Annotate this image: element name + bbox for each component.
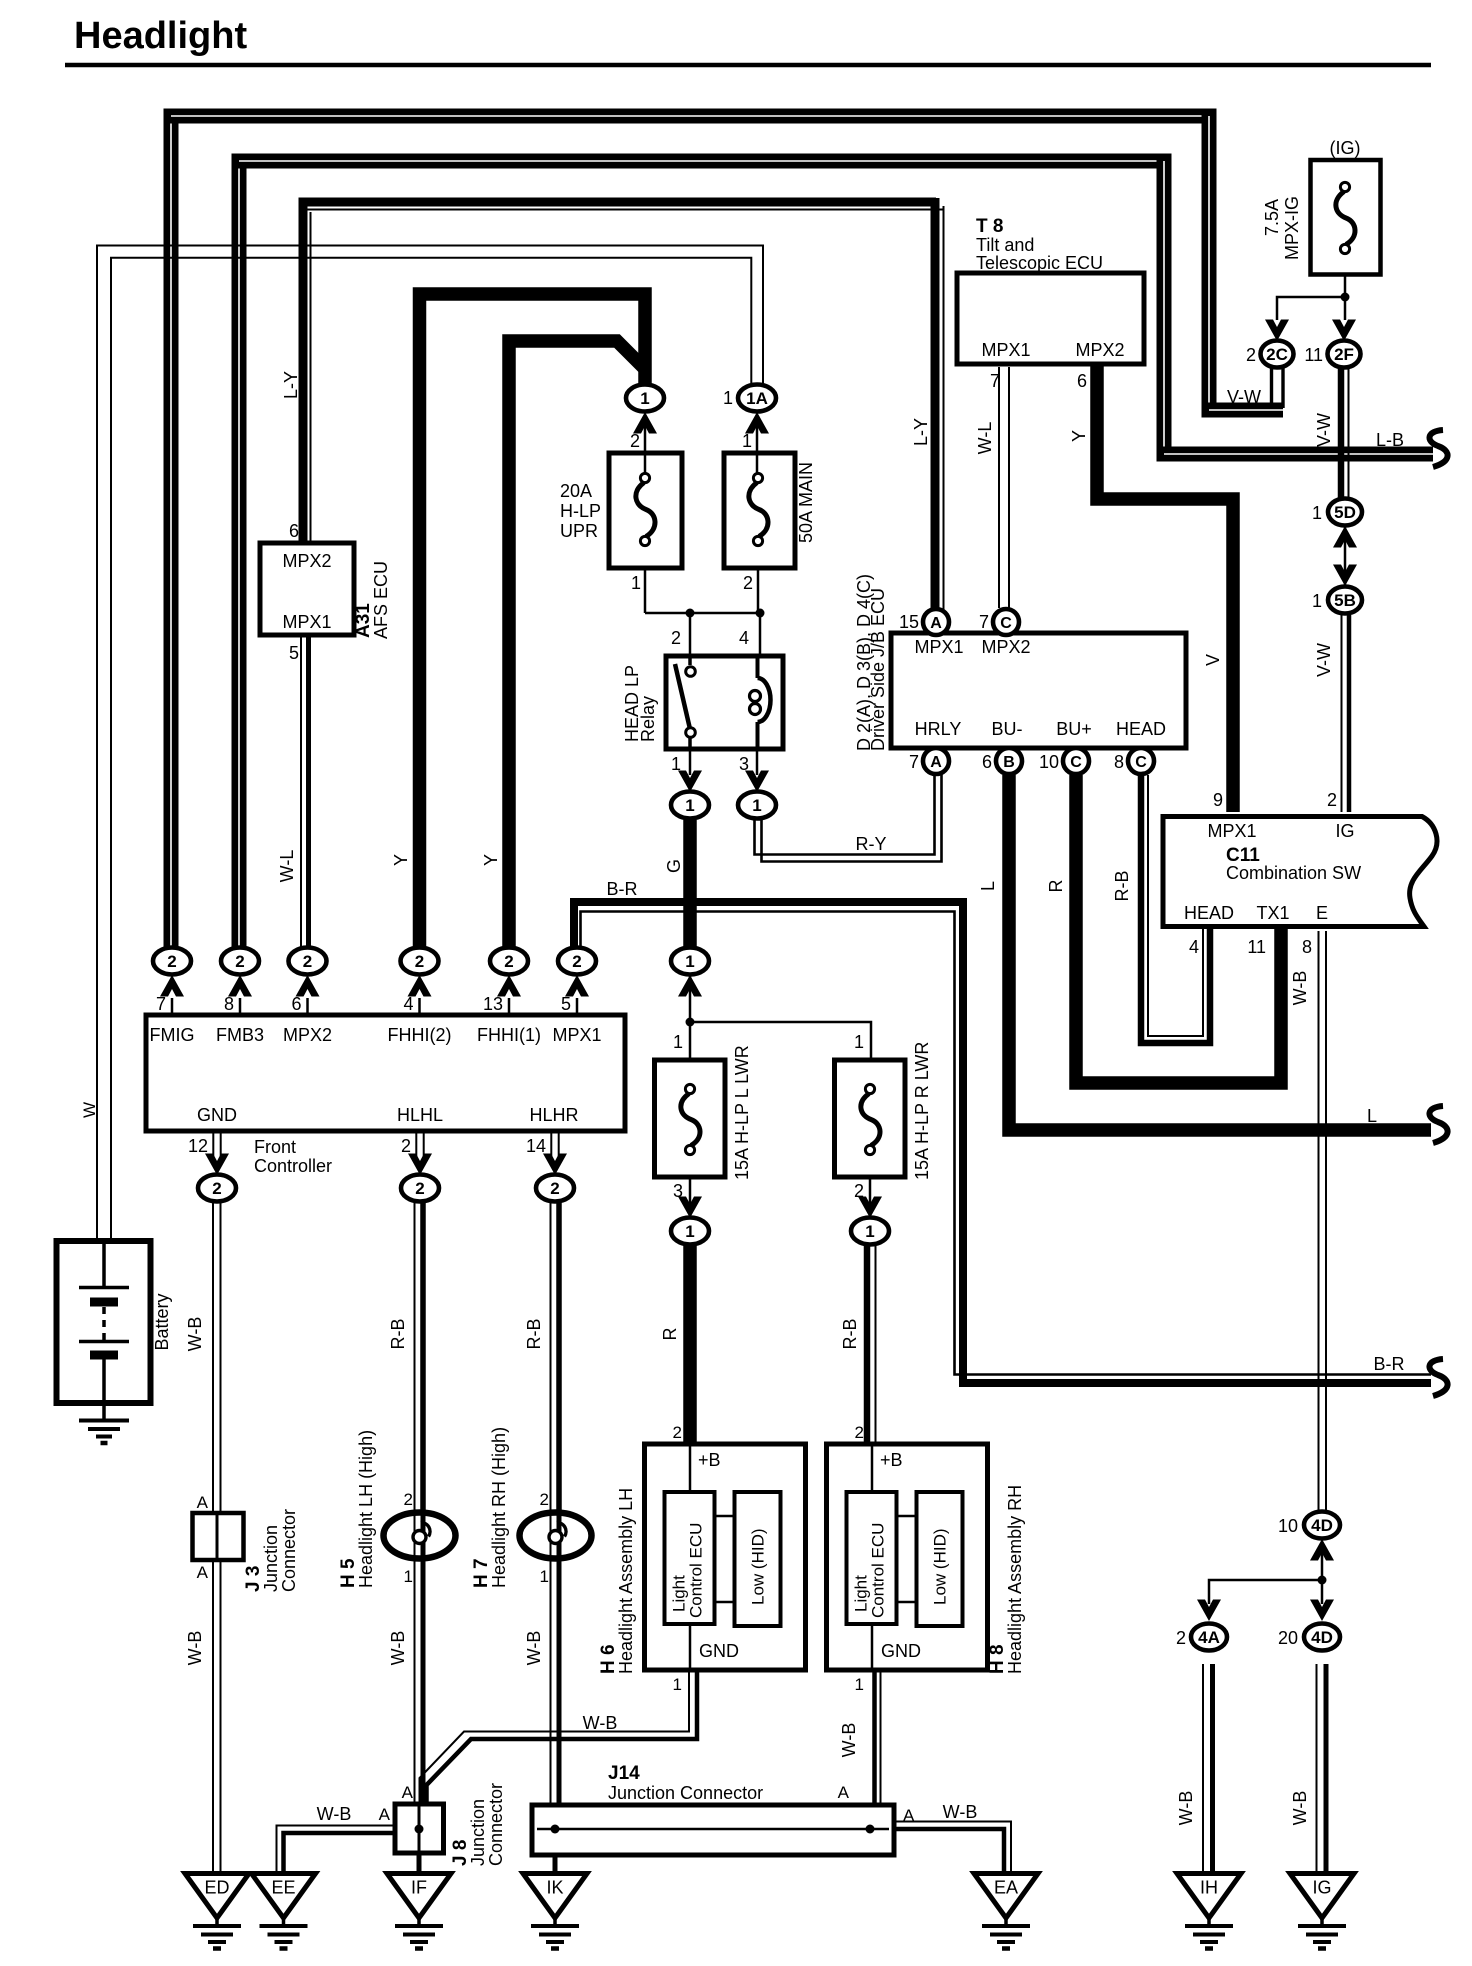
- svg-text:AFS ECU: AFS ECU: [371, 561, 391, 639]
- fuse 15A H-LP L LWR box: [655, 1060, 726, 1177]
- svg-text:(IG): (IG): [1330, 138, 1361, 158]
- wire W-B E line b: [1325, 931, 1327, 1510]
- wire W battery outer line: [97, 246, 763, 1244]
- wire R wire BU+ to C11 TX1: [1076, 775, 1281, 1083]
- svg-text:13: 13: [483, 994, 503, 1014]
- wire W-B IG thick: [1324, 1664, 1329, 1872]
- svg-text:Junction: Junction: [261, 1525, 281, 1592]
- connector oval 2F: [1328, 341, 1361, 368]
- svg-text:T 8: T 8: [976, 216, 1003, 237]
- wire FC FHHI(2) pin stub: [418, 998, 421, 1013]
- wire W-B IH thick: [1210, 1664, 1215, 1872]
- wire L-Y thin companion vertical: [310, 212, 312, 541]
- svg-text:2: 2: [235, 952, 244, 971]
- svg-text:Relay: Relay: [638, 696, 658, 742]
- ECU Front Controller box: [146, 1015, 625, 1131]
- J/B top pin circle A: [923, 609, 949, 635]
- svg-text:GND: GND: [881, 1641, 921, 1661]
- svg-text:IG: IG: [1335, 821, 1354, 841]
- svg-text:2: 2: [572, 952, 581, 971]
- svg-text:Y: Y: [1069, 430, 1089, 442]
- wire V-W stub under connector 2C: [1272, 367, 1284, 408]
- wire R-B thick to H8: [864, 1245, 871, 1446]
- wire R-B H7 thick: [556, 1202, 562, 1512]
- connector oval 2 (HLHR out): [536, 1175, 574, 1202]
- svg-text:7: 7: [156, 994, 166, 1014]
- svg-text:+B: +B: [880, 1450, 903, 1470]
- junction dot: [686, 609, 695, 618]
- svg-text:1: 1: [742, 431, 752, 451]
- svg-text:W-B: W-B: [185, 1631, 205, 1666]
- connector oval 1A: [738, 385, 776, 412]
- wire L-Y thick down to J/B MPX1: [931, 198, 940, 610]
- svg-text:TX1: TX1: [1256, 903, 1289, 923]
- svg-text:L: L: [1367, 1106, 1377, 1126]
- svg-text:Controller: Controller: [254, 1156, 332, 1176]
- J/B top pin circle C: [993, 609, 1019, 635]
- svg-text:6: 6: [982, 752, 992, 772]
- wire R wire to H6: [683, 1245, 697, 1446]
- svg-text:MPX2: MPX2: [981, 637, 1030, 657]
- svg-text:1: 1: [752, 796, 761, 815]
- svg-text:W-B: W-B: [1290, 971, 1310, 1006]
- wire W-B GND line b: [220, 1202, 222, 1872]
- svg-text:2: 2: [671, 628, 681, 648]
- off-page connector curl B-R: [1429, 1359, 1447, 1396]
- wire R-B H5 thick: [420, 1202, 426, 1512]
- J3 internal divider: [216, 1513, 219, 1560]
- wire junction horizontal: [645, 612, 760, 615]
- svg-text:MPX1: MPX1: [981, 340, 1030, 360]
- connector oval 2 (GND out): [198, 1175, 236, 1202]
- fuse 20A H-LP UPR box: [609, 453, 682, 568]
- fuse 15A H-LP R LWR box: [835, 1060, 906, 1177]
- arrow into 4D (20): [1310, 1600, 1334, 1622]
- wire FC GND down stub a: [212, 1133, 214, 1162]
- svg-text:4D: 4D: [1311, 1628, 1333, 1647]
- svg-text:1A: 1A: [746, 389, 768, 408]
- wire G wire: [683, 820, 697, 948]
- wire 4D lower stub: [1321, 1553, 1324, 1580]
- svg-text:IK: IK: [546, 1878, 563, 1898]
- wire W-B GND line a: [212, 1202, 214, 1872]
- wire FC HLHR down stub a: [550, 1133, 552, 1162]
- svg-text:HEAD: HEAD: [1184, 903, 1234, 923]
- svg-text:Tilt and: Tilt and: [976, 235, 1034, 255]
- switch C11 Combination SW box: [1163, 817, 1437, 927]
- svg-text:2: 2: [401, 1136, 411, 1156]
- svg-text:1: 1: [685, 952, 694, 971]
- svg-text:W-L: W-L: [277, 850, 297, 883]
- wire L-Y thick from A31 up: [299, 205, 308, 541]
- svg-text:EE: EE: [271, 1878, 295, 1898]
- svg-text:7: 7: [979, 612, 989, 632]
- wire L-Y thin companion down: [943, 206, 945, 610]
- svg-text:1: 1: [854, 1032, 864, 1052]
- wire 15A L output: [689, 1179, 692, 1205]
- svg-text:A: A: [930, 754, 942, 771]
- svg-text:BU-: BU-: [992, 719, 1023, 739]
- connector oval 2 (FMIG): [153, 948, 191, 975]
- wire L-Y thin companion horizontal: [303, 209, 944, 211]
- svg-text:1: 1: [855, 1675, 864, 1694]
- svg-text:Junction Connector: Junction Connector: [608, 1783, 763, 1803]
- arrow into connector 1 (fuse feed): [633, 412, 657, 434]
- arrow into 5B: [1333, 565, 1357, 587]
- wire G oval lower stub: [689, 975, 692, 1022]
- svg-text:+B: +B: [698, 1450, 721, 1470]
- svg-text:W-B: W-B: [524, 1631, 544, 1666]
- wire W battery inner line: [111, 258, 751, 1243]
- wire W-B to EA thick: [894, 1829, 1004, 1872]
- svg-text:20: 20: [1278, 1628, 1298, 1648]
- arrow into HLHL oval: [408, 1154, 432, 1176]
- svg-text:2: 2: [1246, 345, 1256, 365]
- connector oval 2 (FHHI(1)): [490, 948, 528, 975]
- svg-text:V-W: V-W: [1314, 643, 1334, 677]
- svg-text:GND: GND: [699, 1641, 739, 1661]
- H6 Light Control ECU box: [665, 1492, 715, 1624]
- svg-text:2C: 2C: [1266, 345, 1288, 364]
- fuse 15A H-LP R LWR symbol: [861, 1084, 880, 1154]
- svg-text:1: 1: [685, 1222, 694, 1241]
- wire drop to relay pin 4: [759, 613, 762, 658]
- svg-text:EA: EA: [994, 1878, 1018, 1898]
- svg-text:R: R: [1046, 880, 1066, 893]
- wire Y-V wire T8 to C11: [1097, 366, 1233, 812]
- svg-text:R: R: [660, 1328, 680, 1341]
- svg-text:IH: IH: [1200, 1878, 1218, 1898]
- wire J8 to IF: [417, 1853, 422, 1872]
- svg-text:B: B: [1003, 754, 1015, 771]
- svg-text:W-B: W-B: [583, 1713, 618, 1733]
- wire FC HLHL down stub a: [415, 1133, 417, 1162]
- wire W-L thick companion: [306, 637, 311, 950]
- arrow into connector 1A: [745, 412, 769, 434]
- svg-text:1: 1: [404, 1567, 413, 1586]
- connector oval 2 (FHHI(2)): [401, 948, 439, 975]
- wire Y wire FHHI(1) merge: [509, 341, 645, 950]
- svg-text:MPX2: MPX2: [282, 551, 331, 571]
- wire W-L T8 line a: [998, 367, 1000, 608]
- svg-text:15A H-LP R LWR: 15A H-LP R LWR: [912, 1042, 932, 1180]
- ground IG: [1290, 1874, 1354, 1949]
- svg-text:HLHR: HLHR: [529, 1105, 578, 1125]
- svg-text:1: 1: [673, 1675, 682, 1694]
- wire L-Y thick top horizontal: [299, 198, 937, 207]
- wire FC GND down stub b: [220, 1133, 222, 1162]
- svg-text:Y: Y: [391, 854, 411, 866]
- svg-text:MPX1: MPX1: [914, 637, 963, 657]
- svg-text:HLHL: HLHL: [397, 1105, 443, 1125]
- svg-text:8: 8: [1302, 937, 1312, 957]
- svg-text:MPX1: MPX1: [1207, 821, 1256, 841]
- svg-text:W: W: [80, 1102, 99, 1118]
- wire link 5D-5B: [1344, 526, 1347, 588]
- svg-text:V-W: V-W: [1314, 413, 1334, 447]
- wire V-W thin 2F-5D: [1348, 367, 1350, 500]
- svg-text:Low (HID): Low (HID): [931, 1528, 950, 1605]
- J14 internal wire and nodes: [537, 1828, 889, 1831]
- svg-text:C: C: [1135, 754, 1147, 771]
- wire FC HLHR down stub b: [558, 1133, 560, 1162]
- svg-text:1: 1: [640, 389, 649, 408]
- arrow into relay oval 3: [745, 771, 769, 793]
- wire into 50A fuse: [756, 423, 759, 473]
- junction dot: [686, 1018, 695, 1027]
- svg-text:B-R: B-R: [1374, 1354, 1405, 1374]
- wire W-B to EA thin: [894, 1822, 1011, 1873]
- svg-text:W-B: W-B: [317, 1804, 352, 1824]
- svg-text:IF: IF: [411, 1878, 427, 1898]
- ground IK: [523, 1874, 587, 1949]
- svg-text:7: 7: [990, 371, 1000, 391]
- svg-text:C: C: [1070, 754, 1082, 771]
- svg-text:1: 1: [865, 1222, 874, 1241]
- svg-text:20A: 20A: [560, 481, 592, 501]
- arrow into 2C: [1265, 320, 1289, 342]
- svg-text:R-B: R-B: [524, 1319, 544, 1350]
- svg-text:L-Y: L-Y: [281, 371, 301, 399]
- svg-text:A: A: [197, 1493, 209, 1512]
- wire V-W bus vertical left segment: [164, 116, 179, 950]
- wire 50A fuse output down: [757, 570, 760, 613]
- svg-text:1: 1: [1312, 591, 1322, 611]
- svg-text:Headlight RH (High): Headlight RH (High): [489, 1427, 509, 1588]
- connector oval 1 (G wire): [671, 948, 709, 975]
- fuse 20A H-LP UPR symbol: [636, 473, 655, 545]
- relay coil: [750, 656, 771, 749]
- svg-text:7.5A: 7.5A: [1262, 199, 1282, 236]
- ground ED: [185, 1874, 249, 1949]
- svg-text:Connector: Connector: [486, 1783, 506, 1866]
- ground EA: [974, 1874, 1038, 1949]
- svg-text:12: 12: [188, 1136, 208, 1156]
- junction connector J14 box: [532, 1805, 894, 1855]
- wire W-B below H5 thin: [414, 1559, 416, 1803]
- H6 internal wiring: [689, 1444, 692, 1492]
- svg-text:H-LP: H-LP: [560, 501, 601, 521]
- svg-text:2F: 2F: [1334, 345, 1354, 364]
- svg-text:A: A: [379, 1805, 391, 1824]
- wire W-B H8 thick: [872, 1672, 877, 1804]
- wire R-B thin companion HEAD: [1148, 775, 1203, 1036]
- J/B bottom pin circle A: [923, 748, 949, 774]
- svg-text:2: 2: [415, 952, 424, 971]
- svg-text:2: 2: [212, 1179, 221, 1198]
- arrow into oval (15A R): [858, 1197, 882, 1219]
- wire V-W bus top horizontal: [164, 109, 1210, 124]
- wire FC FMB3 pin stub: [239, 998, 242, 1013]
- wire V-W thick 2F-5D: [1338, 367, 1345, 500]
- svg-text:A: A: [930, 615, 942, 632]
- wire L-B bus lower horizontal to edge: [1157, 447, 1434, 462]
- arrow into FC FMB3 oval: [228, 975, 252, 997]
- wire R-B H5 thin: [414, 1202, 416, 1512]
- connector oval 2C: [1261, 341, 1294, 368]
- junction connector J8 box: [395, 1804, 444, 1853]
- wire W-B below H7 thin: [550, 1559, 552, 1804]
- svg-text:10: 10: [1039, 752, 1059, 772]
- svg-text:Connector: Connector: [279, 1509, 299, 1592]
- svg-text:6: 6: [291, 994, 301, 1014]
- ECU Driver Side J/B: [891, 633, 1186, 748]
- headlight bulb H7: [520, 1513, 592, 1559]
- arrow into FC FHHI(1) oval: [497, 975, 521, 997]
- svg-text:BU+: BU+: [1056, 719, 1092, 739]
- ground EE: [252, 1874, 316, 1949]
- svg-text:L: L: [978, 881, 998, 891]
- svg-text:4: 4: [403, 994, 413, 1014]
- svg-text:Combination SW: Combination SW: [1226, 863, 1361, 883]
- svg-text:10: 10: [1278, 1516, 1298, 1536]
- svg-text:IG: IG: [1312, 1878, 1331, 1898]
- svg-text:W-B: W-B: [1290, 1791, 1310, 1826]
- wire branch to 2C: [1277, 297, 1345, 320]
- H8 internal wiring: [871, 1444, 874, 1492]
- svg-text:7: 7: [909, 752, 919, 772]
- svg-text:Front: Front: [254, 1137, 296, 1157]
- H6 Low HID box: [735, 1492, 781, 1626]
- svg-text:A: A: [197, 1563, 209, 1582]
- svg-text:6: 6: [1077, 371, 1087, 391]
- wire relay pin1 down: [689, 749, 692, 775]
- svg-text:A: A: [402, 1783, 414, 1802]
- ECU T8 Tilt and Telescopic: [957, 273, 1144, 364]
- svg-text:2: 2: [855, 1423, 864, 1442]
- svg-text:1: 1: [540, 1567, 549, 1586]
- wire W-B IG thin: [1316, 1664, 1318, 1872]
- arrow into FC MPX1 oval: [565, 975, 589, 997]
- svg-text:Headlight LH (High): Headlight LH (High): [356, 1430, 376, 1588]
- wire fuse IG output: [1344, 276, 1347, 297]
- svg-text:V: V: [1203, 654, 1223, 666]
- svg-text:4A: 4A: [1198, 1628, 1220, 1647]
- svg-text:2: 2: [167, 952, 176, 971]
- svg-text:FMIG: FMIG: [150, 1025, 195, 1045]
- wire W-B E line a: [1318, 931, 1320, 1510]
- svg-text:8: 8: [1114, 752, 1124, 772]
- svg-text:W-L: W-L: [975, 422, 995, 455]
- connector oval 4D (20): [1304, 1624, 1340, 1651]
- junction connector J3 box: [193, 1513, 244, 1560]
- connector oval 4D (10): [1304, 1512, 1340, 1539]
- junction dot: [756, 609, 765, 618]
- off-page connector curl L: [1429, 1106, 1447, 1143]
- svg-text:Headlight Assembly LH: Headlight Assembly LH: [616, 1488, 636, 1674]
- wire FC FMIG pin stub: [171, 998, 174, 1013]
- svg-text:2: 2: [404, 1490, 413, 1509]
- wire FC HLHL down stub b: [423, 1133, 425, 1162]
- wire R-Y inner wall: [762, 773, 942, 862]
- svg-text:Y: Y: [481, 854, 501, 866]
- svg-text:GND: GND: [197, 1105, 237, 1125]
- connector oval 2 (FMB3): [221, 948, 259, 975]
- fuse 15A H-LP L LWR symbol: [681, 1084, 700, 1154]
- arrow into G oval: [678, 975, 702, 997]
- wire drop to 15A L fuse: [689, 1022, 692, 1058]
- arrow into oval (15A L): [678, 1197, 702, 1219]
- wire L-B bus vertical left: [232, 161, 247, 950]
- svg-text:MPX2: MPX2: [1075, 340, 1124, 360]
- H8 Low HID box: [917, 1492, 963, 1626]
- J/B bottom pin circle B: [996, 748, 1022, 774]
- svg-text:E: E: [1316, 903, 1328, 923]
- arrow into FC FMIG oval: [160, 975, 184, 997]
- svg-text:4: 4: [739, 628, 749, 648]
- battery ground symbol: [79, 1421, 129, 1444]
- arrow into HLHR oval: [543, 1154, 567, 1176]
- svg-text:2: 2: [303, 952, 312, 971]
- arrow into 4A: [1197, 1600, 1221, 1622]
- svg-text:B-R: B-R: [607, 879, 638, 899]
- svg-text:5: 5: [561, 994, 571, 1014]
- wire V-W bus right vertical: [1202, 109, 1217, 411]
- svg-text:L-Y: L-Y: [911, 418, 931, 446]
- connector oval 5D: [1328, 499, 1362, 526]
- svg-text:J14: J14: [608, 1763, 640, 1784]
- relay contact: [675, 656, 695, 749]
- wire 20A fuse output down: [644, 570, 647, 613]
- svg-text:W-B: W-B: [1176, 1791, 1196, 1826]
- wire branch to 4D20: [1321, 1580, 1324, 1604]
- H6 links between internal boxes: [715, 1515, 735, 1518]
- svg-text:Headlight Assembly RH: Headlight Assembly RH: [1005, 1485, 1025, 1674]
- svg-text:50A MAIN: 50A MAIN: [796, 462, 816, 543]
- battery box: [57, 1241, 151, 1403]
- H8 Light Control ECU box: [847, 1492, 897, 1624]
- junction dot: [1341, 293, 1350, 302]
- connector oval 2 (HLHL out): [401, 1175, 439, 1202]
- ground IH: [1177, 1874, 1241, 1949]
- wire relay pin3 down: [756, 749, 759, 775]
- connector oval 2 (MPX1): [558, 948, 596, 975]
- svg-text:FHHI(1): FHHI(1): [477, 1025, 541, 1045]
- svg-text:G: G: [664, 859, 684, 873]
- wire L-B bus right vertical: [1157, 154, 1172, 455]
- wire B-R thick: [574, 902, 1431, 1383]
- arrow into 2F: [1332, 320, 1356, 342]
- headlight assembly H6 box: [645, 1444, 806, 1670]
- svg-text:15A H-LP L LWR: 15A H-LP L LWR: [732, 1045, 752, 1180]
- wire W-B to EE thin: [277, 1826, 396, 1873]
- svg-text:1: 1: [673, 1032, 683, 1052]
- wire V-W bus lower horizontal to 2C: [1202, 403, 1284, 418]
- svg-text:2: 2: [1327, 790, 1337, 810]
- wire drop to relay pin 2: [689, 613, 692, 658]
- svg-text:W-B: W-B: [185, 1317, 205, 1352]
- svg-text:8: 8: [224, 994, 234, 1014]
- wire W-L thin from A31 MPX1: [300, 637, 302, 950]
- arrow into 5D: [1333, 526, 1357, 548]
- svg-text:MPX1: MPX1: [282, 612, 331, 632]
- svg-text:2: 2: [540, 1490, 549, 1509]
- ground IF: [387, 1874, 451, 1949]
- svg-text:1: 1: [1312, 503, 1322, 523]
- svg-text:Control ECU: Control ECU: [687, 1523, 706, 1618]
- svg-text:2: 2: [743, 573, 753, 593]
- headlight bulb H5: [384, 1513, 456, 1559]
- svg-text:UPR: UPR: [560, 521, 598, 541]
- svg-text:2: 2: [673, 1423, 682, 1442]
- wire W-B to EE thick: [284, 1833, 396, 1872]
- wire branch to 2F: [1344, 297, 1347, 320]
- svg-text:2: 2: [504, 952, 513, 971]
- wire 15A R output: [869, 1179, 872, 1205]
- svg-text:11: 11: [1304, 345, 1323, 365]
- wire into 20A fuse: [644, 423, 647, 473]
- svg-text:5: 5: [289, 643, 299, 663]
